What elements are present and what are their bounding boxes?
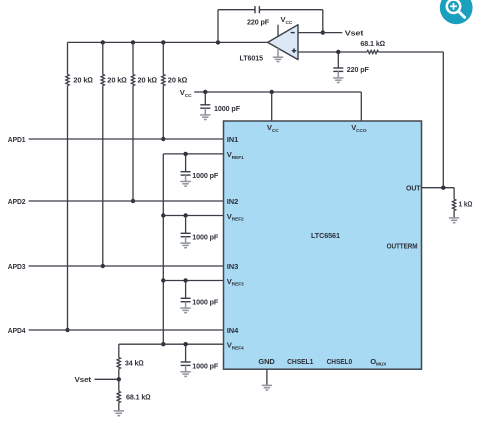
wire feedback vertical left	[217, 10, 219, 43]
svg-text:20 kΩ: 20 kΩ	[138, 76, 158, 85]
wire OUT	[422, 187, 455, 189]
svg-text:OUT: OUT	[406, 184, 421, 193]
wire R8 to ground	[453, 211, 455, 218]
svg-text:APD1: APD1	[8, 135, 26, 144]
svg-text:LTC6561: LTC6561	[311, 231, 341, 240]
wire C5 lead	[185, 216, 187, 234]
wire R3 bottom lead	[132, 86, 134, 201]
junction Vref2/cap	[183, 213, 187, 217]
junction Vref bias/Vref2	[161, 213, 165, 217]
wire non-inverting input	[298, 51, 367, 53]
resistor R2 20 kΩ	[101, 74, 104, 85]
op-amp non-inverting pin mark	[292, 48, 297, 53]
wire right bus vertical	[442, 52, 444, 188]
wire C6 lead	[185, 281, 187, 299]
junction Vref1/cap	[183, 152, 187, 156]
junction bus/R3	[131, 40, 135, 44]
IC U2 LTC6561	[224, 121, 422, 369]
svg-text:GND: GND	[258, 357, 275, 366]
wire inverting input	[298, 32, 342, 34]
svg-text:1 kΩ: 1 kΩ	[459, 200, 473, 209]
svg-text:68.1 kΩ: 68.1 kΩ	[126, 392, 151, 401]
svg-text:20 kΩ: 20 kΩ	[168, 76, 188, 85]
wire GND pin stub	[266, 369, 268, 385]
svg-text:APD4: APD4	[8, 326, 26, 335]
junction Vcc/C3	[203, 90, 207, 94]
wire R4 top lead	[162, 42, 164, 74]
wire C2 lead	[337, 52, 339, 68]
wire Vref3 row	[163, 280, 223, 282]
junction OUT/right bus	[441, 186, 445, 190]
ground C7	[180, 365, 190, 376]
svg-text:220 pF: 220 pF	[347, 65, 369, 74]
junction bus/R4	[161, 40, 165, 44]
capacitor C4 1000 pF	[181, 172, 191, 175]
wire R7 to ground	[118, 403, 120, 411]
ground C5	[180, 237, 190, 248]
wire C3 lead	[204, 92, 206, 105]
resistor R6 34 kΩ	[117, 357, 120, 368]
ground C6	[180, 302, 190, 313]
svg-text:34 kΩ: 34 kΩ	[125, 359, 144, 368]
ground C4	[180, 175, 190, 186]
svg-text:APD3: APD3	[8, 262, 26, 271]
svg-text:APD2: APD2	[8, 197, 26, 206]
ground C3	[200, 108, 210, 119]
ground op-amp	[273, 48, 283, 61]
svg-text:20 kΩ: 20 kΩ	[107, 76, 127, 85]
wire Vref4 to R6	[118, 344, 120, 357]
junction R3/APD2	[131, 199, 135, 203]
wire U1 V+ stub	[277, 25, 279, 37]
svg-text:220 pF: 220 pF	[247, 17, 269, 26]
wire OUT corner down	[453, 188, 455, 200]
junction Vref4/cap	[183, 342, 187, 346]
svg-text:CHSEL0: CHSEL0	[327, 357, 353, 366]
junction R1/APD4	[65, 328, 69, 332]
wire Vref1 row	[163, 153, 223, 155]
wire APD2 input	[29, 200, 224, 202]
ground R8	[449, 218, 459, 223]
wire APD3 input	[29, 265, 224, 267]
op-amp inverting pin mark	[291, 32, 295, 34]
svg-text:IN4: IN4	[227, 326, 239, 335]
junction bus/feedback	[216, 40, 220, 44]
wire APD1 input	[29, 138, 224, 140]
zoom button	[440, 0, 473, 24]
svg-text:OUTTERM: OUTTERM	[387, 241, 418, 250]
wire op-amp output bus	[68, 41, 268, 43]
svg-text:1000 pF: 1000 pF	[214, 104, 240, 113]
wire Vcc to IC VCC pin	[271, 92, 273, 121]
capacitor C6 1000 pF	[181, 298, 191, 301]
capacitor C7 1000 pF	[181, 362, 191, 365]
svg-text:68.1 kΩ: 68.1 kΩ	[360, 39, 385, 48]
svg-text:Vset: Vset	[345, 28, 364, 37]
capacitor C2 220 pF	[333, 68, 343, 71]
wire feedback top left	[218, 9, 255, 11]
junction Vref bias/Vref3	[161, 278, 165, 282]
junction feedback/inverting input	[321, 30, 325, 34]
junction +input/C2	[336, 50, 340, 54]
svg-text:1000 pF: 1000 pF	[192, 171, 218, 180]
junction Vcc/IC pin	[270, 90, 274, 94]
resistor R7 68.1 kΩ	[117, 391, 120, 402]
wire R1 top lead	[67, 42, 69, 74]
capacitor C1 220 pF feedback	[255, 6, 259, 13]
wire R6 to Vset node	[118, 369, 120, 380]
junction R2/APD3	[101, 264, 105, 268]
resistor R5 68.1 kΩ	[367, 50, 378, 53]
op-amp U1 LT6015	[268, 25, 298, 60]
svg-text:IN3: IN3	[227, 262, 239, 271]
junction Vref bias/Vref4	[161, 342, 165, 346]
junction Vset node	[117, 377, 121, 381]
wire R4 bottom lead	[162, 86, 164, 139]
wire Vcc rail	[194, 91, 361, 93]
wire C4 lead	[185, 154, 187, 172]
svg-text:1000 pF: 1000 pF	[192, 298, 218, 307]
wire feedback top right	[259, 9, 322, 11]
svg-text:1000 pF: 1000 pF	[192, 233, 218, 242]
wire R2 top lead	[102, 42, 104, 74]
junction bus/R2	[101, 40, 105, 44]
resistor R1 20 kΩ	[66, 74, 69, 85]
svg-text:IN2: IN2	[227, 197, 239, 206]
wire feedback vertical right	[322, 10, 324, 33]
wire Vref2 row	[163, 215, 223, 217]
svg-text:20 kΩ: 20 kΩ	[73, 76, 93, 85]
wire Vref bias line	[162, 154, 164, 344]
resistor R3 20 kΩ	[131, 74, 134, 85]
wire APD4 input	[29, 329, 224, 331]
wire R3 top lead	[132, 42, 134, 74]
junction R4/APD1	[161, 137, 165, 141]
wire Vref4 row	[119, 343, 224, 345]
wire C7 lead	[185, 344, 187, 362]
wire R5 to right bus	[378, 51, 443, 53]
wire Vset stub	[95, 378, 119, 380]
svg-text:LT6015: LT6015	[240, 54, 264, 63]
capacitor C3 1000 pF	[200, 105, 210, 108]
wire R2 bottom lead	[102, 86, 104, 266]
capacitor C5 1000 pF	[181, 233, 191, 236]
wire Vcc to IC VCCO pin	[360, 92, 362, 121]
resistor R4 20 kΩ	[162, 74, 165, 85]
svg-text:IN1: IN1	[227, 135, 239, 144]
wire R1 bottom lead	[67, 86, 69, 330]
wire Vset node to R7	[118, 379, 120, 391]
svg-text:1000 pF: 1000 pF	[192, 361, 218, 370]
ground IC GND	[262, 385, 272, 390]
junction Vref3/cap	[183, 278, 187, 282]
svg-text:CHSEL1: CHSEL1	[287, 357, 314, 366]
resistor R8 1 kΩ	[452, 199, 455, 210]
svg-text:Vset: Vset	[75, 375, 92, 384]
ground R7	[114, 411, 124, 416]
ground C2	[333, 71, 343, 82]
